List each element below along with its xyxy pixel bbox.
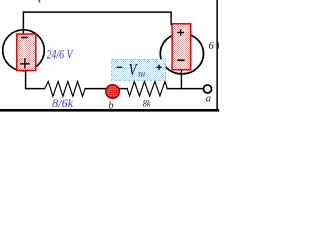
svg-text:24/6 V: 24/6 V [47,47,74,62]
svg-text:8/6k: 8/6k [52,98,74,110]
svg-text:a: a [206,93,211,104]
svg-text:8k: 8k [143,100,151,110]
svg-text:6 V: 6 V [209,41,219,52]
svg-text:TH: TH [138,73,146,79]
svg-text:b: b [108,100,113,111]
